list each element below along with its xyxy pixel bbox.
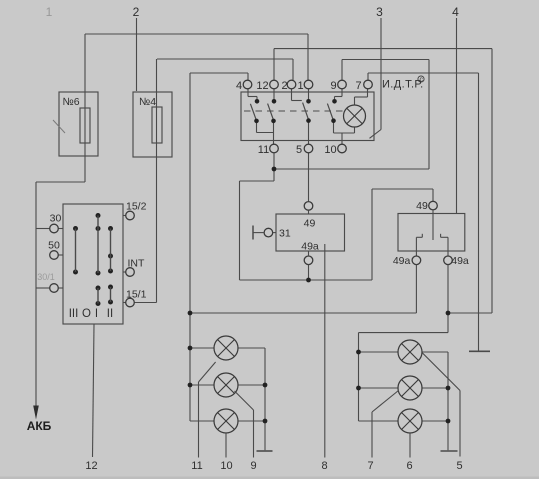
svg-text:2: 2 xyxy=(133,5,140,19)
svg-text:49a: 49a xyxy=(451,255,469,267)
svg-text:4: 4 xyxy=(236,80,242,92)
svg-text:15/2: 15/2 xyxy=(126,201,147,213)
svg-text:7: 7 xyxy=(355,80,361,92)
svg-text:15/1: 15/1 xyxy=(126,289,147,301)
svg-text:И.Д.Т.Р.: И.Д.Т.Р. xyxy=(382,79,424,91)
svg-text:7: 7 xyxy=(367,460,373,472)
svg-text:31: 31 xyxy=(279,228,291,240)
svg-text:12: 12 xyxy=(256,80,268,92)
svg-text:2: 2 xyxy=(281,80,287,92)
svg-text:9: 9 xyxy=(330,80,336,92)
svg-text:3: 3 xyxy=(376,5,383,19)
svg-text:30/1: 30/1 xyxy=(37,272,55,282)
svg-text:4: 4 xyxy=(452,5,459,19)
svg-text:49a: 49a xyxy=(301,241,319,253)
svg-text:49: 49 xyxy=(416,200,428,212)
svg-text:5: 5 xyxy=(296,144,302,156)
svg-text:I: I xyxy=(95,308,98,320)
svg-text:II: II xyxy=(107,308,113,320)
svg-text:50: 50 xyxy=(48,240,60,252)
svg-text:1: 1 xyxy=(297,80,303,92)
svg-text:1: 1 xyxy=(46,5,53,19)
svg-text:III: III xyxy=(69,308,79,320)
svg-text:9: 9 xyxy=(250,460,256,472)
svg-text:6: 6 xyxy=(406,460,412,472)
svg-text:49a: 49a xyxy=(393,255,411,267)
svg-text:O: O xyxy=(82,308,91,320)
svg-text:№6: №6 xyxy=(62,96,79,108)
svg-text:c: c xyxy=(419,77,423,84)
svg-text:49: 49 xyxy=(304,218,316,230)
svg-text:10: 10 xyxy=(220,460,232,472)
svg-text:5: 5 xyxy=(456,460,462,472)
svg-text:INT: INT xyxy=(128,258,146,270)
svg-text:8: 8 xyxy=(321,460,327,472)
svg-text:11: 11 xyxy=(191,460,202,472)
svg-text:11: 11 xyxy=(258,144,269,156)
svg-text:30: 30 xyxy=(50,213,62,225)
svg-text:12: 12 xyxy=(85,460,97,472)
svg-text:10: 10 xyxy=(324,144,336,156)
svg-text:АКБ: АКБ xyxy=(27,419,52,433)
svg-text:№4: №4 xyxy=(139,96,156,108)
